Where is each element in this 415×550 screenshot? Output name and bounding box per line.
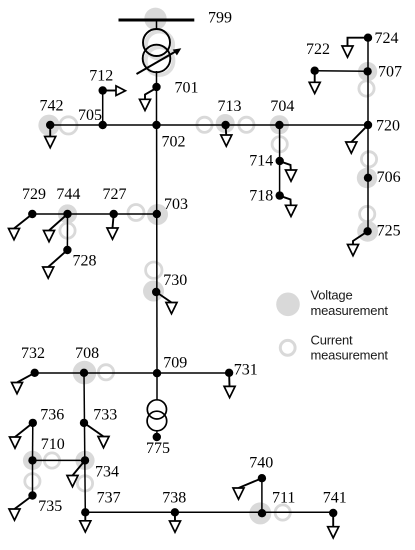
- svg-text:742: 742: [40, 98, 64, 115]
- node 729 dot: [28, 210, 36, 218]
- wire 744-728: [66, 214, 68, 250]
- voltage measurement at node 711: [249, 502, 271, 524]
- wire 736-710: [32, 423, 34, 461]
- wire regulator to node 702 (through 701): [156, 71, 158, 125]
- voltage measurement at node 707: [358, 62, 377, 81]
- current measurement on line 702-713: [197, 117, 212, 132]
- voltage measurement at node 725: [357, 221, 378, 242]
- node 705 dot: [99, 121, 107, 129]
- load arrow at node 712 (points right): [103, 86, 126, 96]
- svg-text:705: 705: [78, 107, 102, 124]
- load arrow at node 718: [280, 196, 297, 217]
- node 728 dot: [63, 246, 71, 254]
- load arrow at node 740: [233, 478, 262, 499]
- svg-text:720: 720: [376, 118, 400, 135]
- transformer 709-775 circles: [147, 400, 167, 431]
- wire 732-708-709-731: [35, 372, 229, 374]
- voltage measurement at node 742: [38, 115, 59, 136]
- wire 724-707-720-706-725: [367, 38, 369, 232]
- svg-text:730: 730: [163, 272, 187, 289]
- svg-text:Current: Current: [311, 332, 354, 347]
- load arrow at node 737: [80, 512, 91, 532]
- svg-text:735: 735: [38, 498, 62, 515]
- node 707 dot: [363, 67, 371, 75]
- load arrow at node 742: [45, 125, 56, 148]
- svg-text:744: 744: [56, 186, 80, 203]
- svg-text:737: 737: [97, 490, 121, 507]
- current measurement on line 710-735: [25, 474, 40, 489]
- wire 737-738-711-741: [85, 511, 333, 513]
- svg-text:775: 775: [146, 440, 170, 457]
- voltage measurement at node 734: [75, 451, 94, 470]
- node 722 dot: [311, 67, 319, 75]
- svg-text:727: 727: [103, 186, 127, 203]
- current measurement on line 707-720: [359, 81, 374, 96]
- load arrow at node 713: [221, 125, 232, 146]
- svg-text:702: 702: [162, 134, 186, 151]
- load arrow at node 714: [280, 161, 297, 181]
- node 718 dot: [276, 191, 284, 199]
- node 775 dot: [153, 433, 161, 441]
- node 733 dot: [80, 419, 88, 427]
- svg-text:733: 733: [93, 407, 117, 424]
- svg-text:706: 706: [377, 169, 401, 186]
- svg-text:734: 734: [95, 464, 119, 481]
- node 742 dot: [46, 121, 54, 129]
- svg-text:714: 714: [249, 153, 273, 170]
- current measurement on line 704-714: [272, 137, 287, 152]
- node 703 dot: [153, 210, 161, 218]
- load arrow at node 731: [224, 373, 235, 398]
- node 720 dot: [364, 121, 372, 129]
- svg-text:703: 703: [164, 196, 188, 213]
- legend current measurement symbol: [280, 340, 295, 355]
- voltage measurement at node 713: [216, 114, 235, 133]
- load arrow at node 701: [140, 88, 157, 111]
- svg-text:741: 741: [323, 490, 347, 507]
- voltage measurement at node 799: [144, 8, 166, 30]
- svg-text:707: 707: [378, 64, 402, 81]
- svg-text:710: 710: [41, 436, 65, 453]
- current measurement on line 706-725: [360, 206, 375, 221]
- node 711 dot: [258, 509, 266, 517]
- load arrow at node 735: [9, 496, 33, 521]
- wire 710-735: [32, 460, 34, 495]
- wire 740-711: [261, 478, 263, 513]
- voltage measurement at node 708: [73, 361, 97, 385]
- svg-text:718: 718: [249, 187, 273, 204]
- node 725 dot: [363, 227, 371, 235]
- node 738 dot: [171, 508, 179, 516]
- node 740 dot: [258, 474, 266, 482]
- node 704 dot: [275, 121, 283, 129]
- voltage regulator XFM circles: [143, 29, 171, 72]
- wire source bus to regulator: [156, 20, 158, 30]
- svg-text:measurement: measurement: [311, 303, 389, 318]
- regulator shadow halo: [146, 31, 174, 74]
- svg-text:799: 799: [208, 10, 232, 27]
- load arrow at node 744: [44, 214, 68, 242]
- svg-text:740: 740: [249, 455, 273, 472]
- load arrow at node 720: [346, 125, 368, 153]
- current measurement on line 720-706: [361, 152, 376, 167]
- current measurement on line 742-705: [60, 117, 77, 134]
- node 744 dot: [63, 210, 71, 218]
- wire main feeder 742-705-702-713-704-720: [50, 124, 368, 126]
- node 714 dot: [276, 157, 284, 165]
- load arrow at node 722: [309, 71, 320, 94]
- node 727 dot: [110, 210, 118, 218]
- load arrow at node 730: [156, 292, 177, 314]
- wire 704-714-718: [279, 125, 281, 196]
- node 724 dot: [364, 34, 372, 42]
- svg-text:713: 713: [218, 98, 242, 115]
- load arrow at node 736: [10, 423, 33, 448]
- svg-text:709: 709: [163, 355, 187, 372]
- wire 709 to transformer: [156, 373, 158, 400]
- load arrow at node 738: [170, 512, 181, 532]
- wire 729-744-727-703: [32, 213, 157, 215]
- svg-text:708: 708: [75, 345, 99, 362]
- wire 710-734: [33, 459, 86, 461]
- svg-text:724: 724: [375, 30, 399, 47]
- current measurement on line 711-741: [275, 505, 290, 520]
- wire transformer to 775: [156, 431, 158, 437]
- load arrow at node 728: [43, 250, 68, 278]
- current measurement on line 708-709: [98, 365, 113, 380]
- wire 705-712: [102, 91, 104, 126]
- current measurement on line 703-730: [146, 262, 162, 278]
- wire 702-703-730-709: [156, 125, 158, 373]
- svg-text:731: 731: [234, 362, 258, 379]
- regulator adjustment arrow: [137, 49, 181, 74]
- svg-text:729: 729: [22, 186, 46, 203]
- node 735 dot: [28, 491, 36, 499]
- node 702 dot: [152, 121, 160, 129]
- current measurement on line 713-704: [239, 117, 254, 132]
- svg-text:701: 701: [175, 80, 199, 97]
- current measurement on line 744-728: [60, 223, 75, 238]
- current measurement on line 710-734: [44, 453, 59, 468]
- node 712 dot: [99, 86, 107, 94]
- node 710 dot: [28, 456, 36, 464]
- load arrow at node 727: [107, 214, 118, 239]
- svg-text:732: 732: [21, 345, 45, 362]
- svg-text:722: 722: [306, 41, 330, 58]
- wire 708-733-734-737: [84, 373, 85, 513]
- node 741 dot: [329, 509, 337, 517]
- source bus bar node 799: [119, 18, 195, 21]
- node 709 dot: [153, 369, 161, 377]
- svg-text:725: 725: [377, 223, 401, 240]
- svg-text:738: 738: [162, 490, 186, 507]
- load arrow at node 724: [342, 38, 368, 58]
- svg-text:704: 704: [270, 98, 294, 115]
- current measurement on line 734-737: [77, 476, 92, 491]
- load arrow at node 741: [328, 513, 339, 538]
- svg-text:736: 736: [40, 407, 64, 424]
- svg-text:712: 712: [89, 68, 113, 85]
- svg-text:728: 728: [73, 252, 97, 269]
- voltage measurement at node 744: [58, 204, 77, 223]
- voltage measurement at node 706: [357, 168, 377, 188]
- voltage measurement at node 703: [147, 204, 168, 225]
- node 737 dot: [81, 508, 89, 516]
- load arrow at node 725: [348, 231, 368, 255]
- node 706 dot: [364, 174, 372, 182]
- node 736 dot: [29, 419, 37, 427]
- node 734 dot: [81, 456, 89, 464]
- load arrow at node 732: [12, 373, 35, 394]
- node 713 dot: [221, 121, 229, 129]
- load arrow at node 734: [67, 460, 85, 486]
- svg-text:measurement: measurement: [311, 348, 389, 363]
- node 701 dot: [152, 83, 160, 91]
- load arrow at node 733: [84, 423, 109, 448]
- voltage measurement at node 730: [143, 281, 164, 302]
- legend voltage measurement symbol: [276, 293, 300, 317]
- node 708 dot: [80, 369, 88, 377]
- voltage measurement at node 704: [270, 115, 289, 134]
- node 732 dot: [31, 369, 39, 377]
- svg-text:711: 711: [272, 490, 295, 507]
- node 730 dot: [152, 288, 160, 296]
- voltage measurement at node 710: [23, 451, 42, 470]
- current measurement on line 727-703: [128, 205, 144, 221]
- svg-text:Voltage: Voltage: [311, 288, 353, 303]
- node 731 dot: [225, 369, 233, 377]
- load arrow at node 729: [9, 214, 33, 240]
- wire 722-707: [315, 70, 368, 73]
